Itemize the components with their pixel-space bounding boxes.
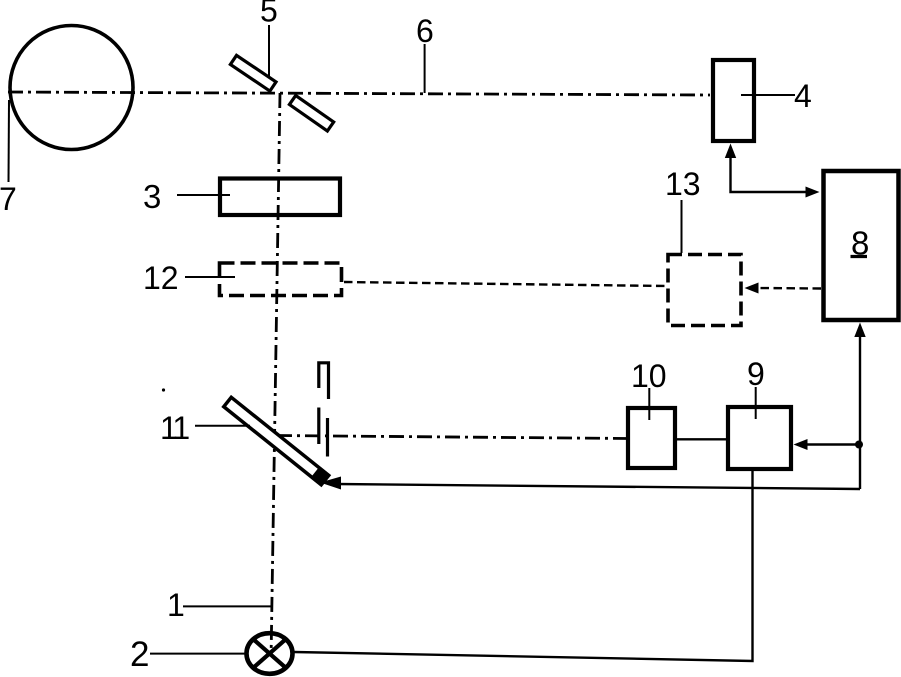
beam splitter mirror 5 (lower-right plate) [289,95,333,131]
wire from box 4 to box 8 [731,147,809,192]
eye/lens circle 7 [10,26,133,150]
wire box 9 bottom down and left to lamp [294,469,753,661]
box 13 (dashed element) [668,255,741,326]
arrowhead into box 4 bottom [725,144,736,159]
dashed arrow wire box 8 to box 13 [756,287,821,290]
arrowhead into box 8 bottom [854,323,865,338]
svg-text:7: 7 [0,181,17,217]
box 12 (dashed element) [220,263,342,296]
leader line for label 2 [150,653,245,655]
vertical trunk wire up to box 8 bottom [859,327,861,489]
leader line for label 7 [8,100,11,182]
stray ink dot [162,388,165,391]
svg-text:2: 2 [130,635,149,674]
junction dot [855,441,863,449]
beam splitter mirror 5 (upper-left plate) [230,55,276,91]
long return wire from trunk to mirror 11 [336,484,860,489]
svg-text:3: 3 [143,178,161,215]
mirror 11 (tilted plate) [223,396,330,486]
leader line for label 13 [681,200,683,253]
leader line for label 9 [755,387,757,419]
svg-text:1: 1 [167,587,185,623]
svg-text:4: 4 [794,78,812,114]
leader line for label 6 [424,44,426,93]
svg-text:9: 9 [747,356,765,392]
box 4 (photodetector) [713,60,754,141]
arrowhead at mirror 11 tip [320,477,341,490]
leader line for label 10 [648,388,650,420]
box 3 (filter) [220,179,340,216]
svg-text:13: 13 [665,166,701,202]
leader line for label 3 [177,194,230,196]
svg-text:11: 11 [160,410,189,446]
main horizontal optical axis (dash-dot) [8,92,710,95]
lamp 2 (circle with X) [247,633,293,674]
slit lower-left bar [317,408,320,445]
leader line for label 11 [195,425,250,427]
slit top staple [319,363,329,399]
box 10 [628,408,675,468]
vertical optical axis (dash-dot) [271,93,280,648]
slit lower-right bar [326,418,329,457]
leader line for label 1 [183,605,272,607]
svg-text:12: 12 [143,260,179,296]
horizontal dash-dot axis mirror 11 to box 10 [277,436,628,439]
leader line for label 5 [268,25,270,77]
arrowhead into box 9 right [794,439,808,450]
arrowhead into box 8 left [806,187,820,198]
leader line for label 12 [185,276,235,278]
svg-text:5: 5 [260,0,278,29]
svg-text:10: 10 [631,358,667,394]
arrowhead into box 13 right [745,283,759,294]
svg-text:6: 6 [416,13,434,49]
wire between box 10 and box 9 [677,438,726,440]
arrow wire junction to box 9 [805,443,859,445]
box 9 [728,407,791,469]
leader line for label 4 [741,94,795,96]
box 8 (control unit) [824,171,899,320]
dashed link wire 12 to 13 [344,282,666,286]
